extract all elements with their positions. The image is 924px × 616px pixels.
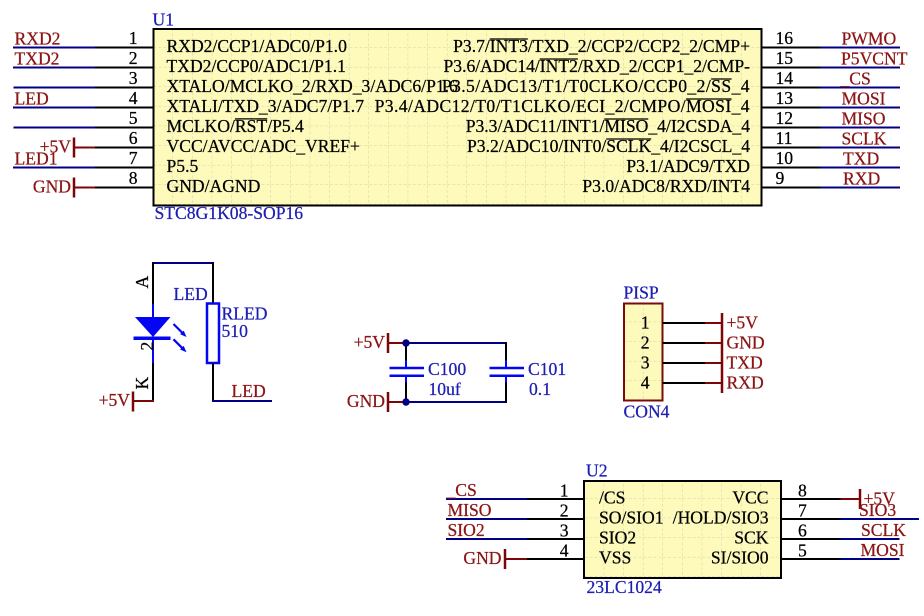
wire C101 top (505, 342, 507, 362)
svg-text:1: 1 (641, 312, 650, 332)
svg-text:/HOLD/SIO3: /HOLD/SIO3 (673, 507, 769, 527)
U1 pin 14 (761, 87, 821, 89)
wire net LED bottom (212, 400, 272, 402)
U1 pin 4 (95, 107, 154, 109)
nets on U2 right (841, 489, 920, 560)
svg-text:10uf: 10uf (429, 379, 461, 399)
svg-text:K: K (132, 377, 152, 390)
wire net CS (446, 498, 527, 500)
svg-text:P3.1/ADC9/TXD: P3.1/ADC9/TXD (626, 156, 750, 176)
wire GND rail (405, 401, 506, 403)
svg-text:P3.0/ADC8/RXD/INT4: P3.0/ADC8/RXD/INT4 (582, 176, 750, 196)
svg-text:+5V: +5V (727, 312, 759, 332)
svg-text:SIO2: SIO2 (448, 520, 485, 540)
resistor RLED 510 (207, 304, 219, 364)
power bars (721, 313, 724, 393)
U2 pin 1 (527, 498, 584, 500)
connector PISP CON4 (624, 283, 765, 422)
svg-text:GND: GND (33, 177, 71, 197)
svg-text:15: 15 (776, 48, 794, 68)
power stub +5V (705, 322, 722, 324)
U2 pin 7 (781, 518, 841, 520)
wire net PWMO (821, 47, 901, 49)
wire net TXD2 (13, 67, 95, 69)
svg-text:TXD2: TXD2 (15, 48, 60, 68)
svg-text:2: 2 (129, 48, 138, 68)
wire C101 bottom (505, 383, 507, 404)
U1 pin 7 (95, 167, 154, 169)
wire net CS (821, 87, 901, 89)
capacitor C101 (490, 360, 525, 384)
svg-text:7: 7 (798, 501, 807, 521)
U2 body (584, 481, 781, 578)
wire net LED1 (13, 167, 95, 169)
U1 pin 11 (761, 147, 821, 149)
U1 pin 12 (761, 127, 821, 129)
ground GND at U1 pin8 (33, 177, 95, 198)
wire net LED (13, 107, 95, 109)
svg-text:P5VCNT: P5VCNT (841, 48, 908, 68)
svg-text:2: 2 (641, 332, 650, 352)
svg-text:13: 13 (776, 88, 794, 108)
nets on U2 left (446, 480, 528, 569)
svg-text:A: A (132, 276, 152, 289)
svg-text:LED1: LED1 (15, 148, 58, 168)
wire pin5 (14, 127, 96, 129)
U2 pin 2 (527, 518, 584, 520)
U1 pin 2 (95, 67, 154, 69)
svg-text:MISO: MISO (842, 108, 886, 128)
svg-text:TXD: TXD (727, 352, 763, 372)
wire net SIO2 (446, 538, 527, 540)
svg-text:SI/SIO0: SI/SIO0 (711, 547, 769, 567)
svg-text:SCLK: SCLK (861, 520, 906, 540)
svg-text:C101: C101 (528, 359, 566, 379)
svg-text:7: 7 (129, 148, 138, 168)
svg-text:4: 4 (560, 541, 569, 561)
svg-text:LED: LED (15, 88, 49, 108)
wire net MOSI (821, 107, 901, 109)
svg-text:P3.5/ADC13/T1/T0CLKO/CCP0_2/SS: P3.5/ADC13/T1/T0CLKO/CCP0_2/SS_4 (442, 76, 750, 96)
nets on U1 right (821, 28, 908, 188)
power port +5V at U1 pin6 (40, 137, 95, 158)
svg-text:+5V: +5V (99, 390, 131, 410)
svg-text:0.1: 0.1 (529, 379, 551, 399)
svg-text:P5.5: P5.5 (167, 156, 199, 176)
PISP pin 3 (663, 362, 706, 364)
svg-text:MISO: MISO (448, 500, 492, 520)
svg-text:MOSI: MOSI (861, 540, 905, 560)
svg-text:VCC: VCC (732, 487, 768, 507)
overlines on active-low pin names (235, 118, 267, 120)
svg-text:1: 1 (560, 481, 569, 501)
wire net TXD (821, 167, 901, 169)
svg-text:RXD: RXD (727, 372, 764, 392)
svg-text:XTALI/TXD_3/ADC7/P1.7: XTALI/TXD_3/ADC7/P1.7 (167, 96, 365, 116)
svg-text:U2: U2 (586, 461, 608, 481)
svg-text:GND/AGND: GND/AGND (167, 176, 261, 196)
U1 pin 10 (761, 167, 821, 169)
U2 pin 6 (781, 538, 841, 540)
IC U2 23LC1024 (527, 461, 841, 598)
ground GND at U2 pin4 (463, 548, 527, 569)
svg-text:4: 4 (129, 88, 138, 108)
wire net SIO3 (841, 518, 920, 520)
svg-text:P3.6/ADC14/INT2/RXD_2/CCP1_2/C: P3.6/ADC14/INT2/RXD_2/CCP1_2/CMP- (444, 56, 751, 76)
wire top of LED branch (152, 262, 214, 264)
svg-text:12: 12 (776, 108, 794, 128)
svg-text:LED: LED (174, 284, 208, 304)
svg-text:PISP: PISP (624, 283, 659, 303)
svg-text:8: 8 (798, 481, 807, 501)
svg-text:RXD2: RXD2 (15, 28, 61, 48)
svg-text:STC8G1K08-SOP16: STC8G1K08-SOP16 (155, 203, 304, 223)
svg-text:RXD: RXD (843, 168, 880, 188)
svg-text:10: 10 (776, 148, 794, 168)
svg-text:14: 14 (776, 68, 794, 88)
svg-text:TXD: TXD (843, 148, 879, 168)
svg-text:11: 11 (776, 128, 793, 148)
wire net MISO (446, 518, 527, 520)
svg-text:SO/SIO1: SO/SIO1 (599, 507, 664, 527)
wire net SCLK (841, 538, 900, 540)
wire pin3 (14, 87, 96, 89)
power stub TXD (705, 362, 722, 364)
svg-text:LED: LED (232, 381, 266, 401)
U2 pin 5 (781, 558, 841, 560)
svg-text:SCK: SCK (734, 527, 769, 547)
wire net RXD2 (13, 47, 95, 49)
svg-text:6: 6 (129, 128, 138, 148)
PISP pin 1 (663, 322, 706, 324)
svg-text:510: 510 (222, 321, 249, 341)
svg-text:_CS: _CS (446, 480, 477, 500)
wire net MOSI (841, 558, 900, 560)
U2 pin 8 (781, 498, 841, 500)
wire net P5VCNT (821, 67, 901, 69)
capacitor C100 (390, 360, 425, 384)
svg-text:+5V: +5V (354, 332, 386, 352)
svg-text:3: 3 (129, 68, 138, 88)
wire +5V rail (405, 342, 506, 344)
PISP pin 2 (663, 342, 706, 344)
wire C100 bottom (405, 383, 407, 404)
svg-text:SIO2: SIO2 (599, 527, 636, 547)
LED circuit (99, 262, 272, 412)
wire cathode to +5V (152, 363, 154, 402)
U1 pin 13 (761, 107, 821, 109)
svg-text:CON4: CON4 (624, 402, 670, 422)
U1 pin 6 (95, 147, 154, 149)
svg-text:5: 5 (798, 541, 807, 561)
svg-text:TXD2/CCP0/ADC1/P1.1: TXD2/CCP0/ADC1/P1.1 (167, 56, 346, 76)
U1 pin 8 (95, 187, 154, 189)
power stub RXD (705, 382, 722, 384)
power port +5V below LED (99, 390, 154, 412)
svg-text:3: 3 (641, 352, 650, 372)
U1 pin 1 (95, 47, 154, 49)
svg-text:1: 1 (129, 28, 138, 48)
svg-text:16: 16 (776, 28, 794, 48)
svg-text:GND: GND (727, 332, 765, 352)
svg-text:MOSI: MOSI (842, 88, 886, 108)
ground GND (347, 391, 406, 412)
svg-text:/CS: /CS (599, 487, 625, 507)
U2 pin 3 (527, 538, 584, 540)
decoupling capacitors C100 C101 (347, 332, 566, 412)
wire anode (152, 262, 154, 306)
svg-text:VCC/AVCC/ADC_VREF+: VCC/AVCC/ADC_VREF+ (167, 136, 360, 156)
svg-text:VSS: VSS (599, 547, 631, 567)
U1 pin 9 (761, 187, 821, 189)
junction +5V/C100 (402, 339, 409, 346)
PISP body (624, 304, 663, 401)
svg-text:PWMO: PWMO (842, 28, 897, 48)
svg-text:6: 6 (798, 521, 807, 541)
svg-text:RXD2/CCP1/ADC0/P1.0: RXD2/CCP1/ADC0/P1.0 (167, 36, 348, 56)
svg-text:U1: U1 (153, 10, 175, 30)
svg-text:SCLK: SCLK (842, 128, 887, 148)
svg-text:_CS: _CS (840, 68, 871, 88)
PISP pin 4 (663, 382, 706, 384)
junction GND/C100 (402, 398, 409, 405)
power port +5V at U2 pin8 (841, 489, 896, 510)
U1 pin 3 (95, 87, 154, 89)
svg-text:SIO3: SIO3 (859, 500, 896, 520)
svg-text:XTALO/MCLKO_2/RXD_3/ADC6/P1.6: XTALO/MCLKO_2/RXD_3/ADC6/P1.6 (167, 76, 459, 96)
LED diode symbol (designator LED) (134, 304, 187, 364)
wire net MISO (821, 127, 901, 129)
svg-text:GND: GND (463, 548, 501, 568)
svg-text:9: 9 (776, 168, 785, 188)
nets on U1 left (13, 28, 95, 197)
wire C100 top (405, 342, 407, 362)
svg-text:C100: C100 (428, 359, 466, 379)
svg-text:2: 2 (137, 342, 157, 351)
wire net SCLK (821, 147, 901, 149)
svg-text:3: 3 (560, 521, 569, 541)
svg-text:5: 5 (129, 108, 138, 128)
power port +5V (354, 332, 406, 353)
U1 pin 5 (95, 127, 154, 129)
U1 pin 16 (761, 47, 821, 49)
wire below RLED (212, 363, 214, 402)
U1 pin 15 (761, 67, 821, 69)
wire net RXD (821, 187, 901, 189)
svg-text:8: 8 (129, 168, 138, 188)
svg-text:2: 2 (560, 501, 569, 521)
U2 pin 4 (527, 558, 584, 560)
svg-text:4: 4 (641, 372, 650, 392)
svg-text:23LC1024: 23LC1024 (587, 577, 662, 597)
power stub GND (705, 342, 722, 344)
U1 body (154, 29, 762, 206)
svg-text:GND: GND (347, 391, 385, 411)
wire to resistor RLED (212, 262, 214, 305)
IC U1 STC8G1K08-SOP16 (95, 10, 821, 224)
